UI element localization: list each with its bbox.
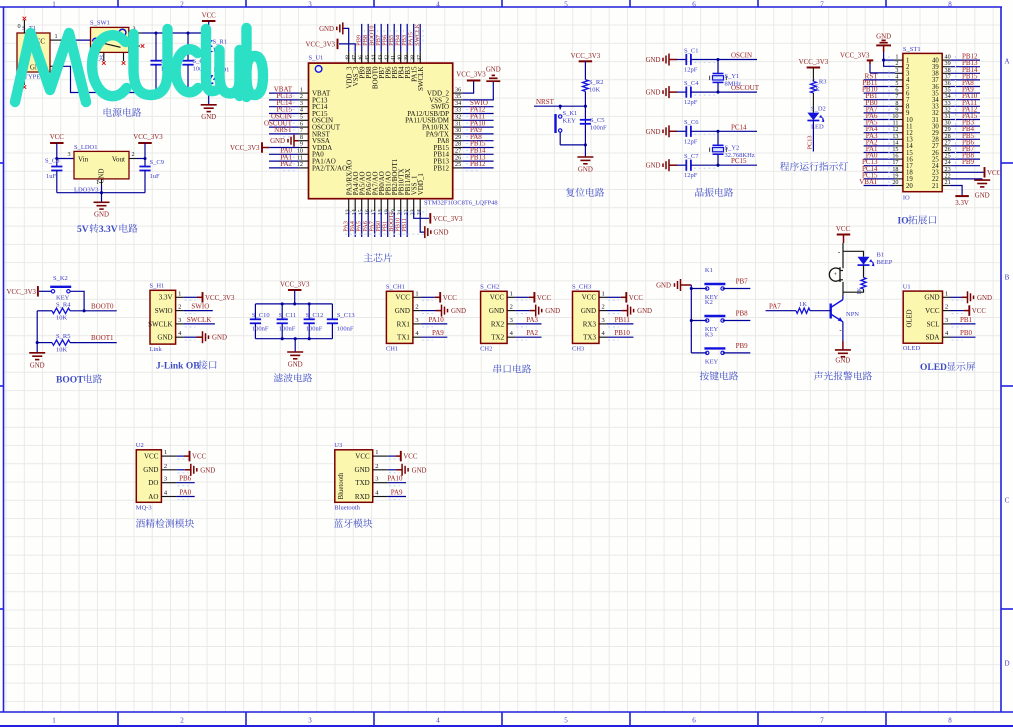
ST1 right pin 30	[942, 125, 950, 127]
svg-text:KEY: KEY	[563, 118, 577, 125]
svg-text:S_R4: S_R4	[56, 301, 71, 308]
svg-text:NRST: NRST	[274, 126, 293, 134]
U1 top pin 42 PB6	[387, 52, 389, 63]
ST1 left pin 5	[895, 86, 903, 88]
caption 主芯片	[364, 253, 373, 262]
svg-text:25: 25	[455, 161, 461, 168]
net label SWIO	[184, 310, 213, 312]
wire switch to VCC rail	[142, 32, 209, 34]
U1 top pin 47 VSS_3	[354, 52, 356, 63]
svg-text:GND: GND	[835, 358, 850, 365]
svg-text:GND: GND	[975, 193, 990, 200]
svg-text:S_C4: S_C4	[684, 80, 699, 87]
svg-text:10K: 10K	[589, 87, 601, 94]
resistor S_R1	[206, 40, 212, 56]
ST1 pin22 GND	[950, 178, 982, 180]
svg-text:1K: 1K	[857, 287, 863, 295]
svg-text:VCC: VCC	[50, 134, 65, 141]
wire NRST	[534, 105, 585, 107]
U1 bottom pin 16 PA6/AO	[367, 199, 369, 212]
svg-text:VCC_3V3: VCC_3V3	[799, 59, 829, 66]
U1 top pin 46 PB9	[361, 52, 363, 63]
svg-text:PA3: PA3	[526, 316, 538, 324]
switch value 开关	[91, 55, 97, 61]
S_CH1 pin 1 VCC	[413, 296, 421, 298]
svg-text:S_C7: S_C7	[684, 153, 699, 160]
svg-text:SWIO: SWIO	[191, 303, 209, 311]
button K1 KEY	[691, 288, 707, 290]
svg-text:U1: U1	[903, 284, 911, 291]
svg-text:PA2: PA2	[280, 160, 292, 168]
ST1 left pin 11	[895, 125, 903, 127]
U1 top pin 44 BOOT0	[374, 52, 376, 63]
S_CH2 pin 2 GND	[507, 310, 515, 312]
svg-text:PA0: PA0	[179, 489, 191, 497]
wire LED1 to ground bus	[208, 83, 210, 92]
ground bus junctions	[154, 91, 157, 94]
capacitor S_C4 12pF	[677, 91, 686, 93]
svg-text:S_C9: S_C9	[150, 159, 164, 166]
svg-text:100nF: 100nF	[590, 125, 607, 132]
MCUclub watermark logo	[15, 28, 263, 102]
ST1 left pin 12	[895, 132, 903, 134]
U1 left pin 2 PC13	[299, 99, 309, 101]
ST1 right pin 39	[942, 66, 950, 68]
svg-text:8MHz: 8MHz	[725, 80, 742, 87]
U2 pin 3 DO	[161, 482, 176, 484]
svg-text:PB0: PB0	[960, 329, 973, 337]
svg-text:12pF: 12pF	[684, 99, 698, 106]
U1 right pin 25 PB12	[453, 167, 463, 169]
svg-text:VDD_1: VDD_1	[417, 173, 425, 196]
U1 right pin 36 VDD_2	[453, 92, 463, 94]
buzzer B1	[829, 268, 840, 281]
svg-text:RX1: RX1	[397, 320, 411, 328]
svg-text:Vin: Vin	[78, 155, 89, 163]
resistor S_R4 10K	[37, 310, 52, 312]
svg-text:D: D	[1004, 660, 1009, 668]
svg-text:J-Link OB: J-Link OB	[156, 362, 200, 372]
svg-text:S_K1: S_K1	[563, 110, 578, 117]
svg-text:VCC_3V3: VCC_3V3	[205, 295, 235, 302]
T1 shell pin top	[23, 20, 25, 33]
svg-text:GND: GND	[646, 129, 661, 136]
capacitor S_C10 100nF	[254, 304, 256, 319]
svg-text:S_R2: S_R2	[589, 79, 603, 86]
S_H1 pin 2 SWIO	[176, 310, 184, 312]
svg-text:5: 5	[564, 717, 568, 725]
power port VCC	[388, 455, 396, 457]
U1 pin47 VSS_3 to VCC_3V3	[339, 44, 355, 52]
S_CH2 pin 3 RX2	[507, 323, 515, 325]
S_CH3 pin 4 TX3	[599, 336, 607, 338]
svg-text:GND: GND	[201, 114, 216, 121]
svg-text:S_R5: S_R5	[56, 333, 70, 340]
svg-text:NRST: NRST	[536, 98, 555, 106]
U1 bottom pin 20 PB2/BOOT1	[393, 199, 395, 212]
svg-text:B1: B1	[877, 251, 885, 258]
svg-text:2: 2	[180, 717, 184, 725]
U1 left pin 3 PC14	[299, 106, 309, 108]
U3 pin 2 GND	[373, 469, 388, 471]
ST1 pin3 wire	[870, 72, 895, 74]
ST1 right pin 25	[942, 158, 950, 160]
ST1 pin21 3.3V	[950, 186, 962, 197]
U1 left pin 1 VBAT	[299, 92, 309, 94]
capacitor S_C11 100nF	[281, 304, 283, 319]
button K2 KEY	[691, 320, 707, 322]
U3 pin 4 RXD	[373, 496, 388, 498]
LDO GND pin 1	[101, 179, 103, 185]
svg-text:U2: U2	[136, 442, 144, 449]
U1 left pin 7 NRST	[299, 133, 309, 135]
svg-text:VCC: VCC	[629, 295, 644, 302]
svg-text:1: 1	[415, 290, 418, 297]
ST1 left pin 15	[895, 152, 903, 154]
net label PB0	[951, 336, 976, 338]
module S_H1 body	[150, 290, 176, 344]
svg-text:GND: GND	[646, 57, 661, 64]
svg-text:8: 8	[948, 717, 952, 725]
caption 滤波电路	[274, 373, 283, 382]
U3 pin 1 VCC	[373, 455, 388, 457]
ST1 left pin 10	[895, 119, 903, 121]
U1 left pin 5 OSCIN	[299, 119, 309, 121]
svg-text:TX1: TX1	[397, 334, 410, 342]
svg-text:U3: U3	[334, 442, 342, 449]
svg-text:VCC: VCC	[490, 294, 505, 302]
svg-text:VCC: VCC	[355, 453, 370, 461]
U1 right pin 35 VSS_2	[453, 99, 463, 101]
capacitor S_C6 12pF	[677, 130, 686, 132]
svg-text:OLED: OLED	[920, 363, 947, 373]
svg-text:0: 0	[17, 23, 20, 30]
svg-text:K1: K1	[705, 267, 713, 274]
svg-text:S_H1: S_H1	[150, 283, 165, 290]
svg-text:GND: GND	[157, 334, 172, 342]
ST1 left pin 19	[895, 178, 903, 180]
ST1 left pin 3	[895, 72, 903, 74]
svg-text:7: 7	[820, 717, 824, 725]
power port VCC	[607, 296, 621, 298]
module U2 body	[136, 450, 161, 503]
module U3 body	[335, 450, 373, 503]
net label PB6	[176, 482, 194, 484]
svg-text:47: 47	[352, 55, 358, 61]
button K3 KEY	[691, 352, 707, 354]
svg-text:GND: GND	[977, 295, 992, 302]
net label PA9	[388, 496, 406, 498]
svg-text:PB11: PB11	[615, 316, 631, 324]
svg-text:S_C8: S_C8	[45, 158, 59, 165]
U1 right pin 26 PB13	[453, 160, 463, 162]
S_CH2 pin 4 TX2	[507, 336, 515, 338]
svg-text:OSCIN: OSCIN	[731, 52, 752, 60]
svg-text:IO: IO	[898, 217, 909, 227]
svg-text:SDA: SDA	[925, 334, 939, 342]
alarm LED resistor	[861, 278, 866, 290]
resistor S_R3 1K	[812, 68, 814, 82]
LDO regulator S_LDO1	[74, 151, 129, 179]
ST1 right pin 21	[942, 185, 950, 187]
net label PA10	[388, 482, 406, 484]
crystal S_Y2 32.768KHz	[716, 130, 719, 133]
svg-text:GND: GND	[288, 362, 303, 369]
module S_CH1 body	[386, 291, 413, 343]
module S_CH3 body	[573, 291, 600, 343]
svg-text:10K: 10K	[56, 346, 68, 353]
SW1 pin 3	[129, 32, 142, 34]
ST1 right pin 37	[942, 79, 950, 81]
svg-text:1: 1	[375, 449, 378, 456]
module S_CH2 body	[481, 291, 508, 343]
svg-text:S_LDO1: S_LDO1	[74, 144, 97, 151]
U1 pin23 VSS_1 to VCC_3V3	[414, 211, 429, 218]
svg-text:GND: GND	[319, 26, 334, 33]
svg-text:VCC: VCC	[395, 294, 410, 302]
capacitor S_C7 12pF	[677, 164, 686, 166]
wire to net label OSCOUT	[691, 91, 757, 93]
caption 酒精检测模块	[136, 519, 145, 528]
power port VCC	[421, 296, 435, 298]
svg-text:GND: GND	[876, 34, 891, 41]
svg-text:1: 1	[602, 290, 605, 297]
S_CH1 pin 3 RX1	[413, 323, 421, 325]
U1 pin24 VDD_1 to GND	[420, 211, 424, 232]
U1 top pin 45 PB8	[367, 52, 369, 63]
svg-text:100nF: 100nF	[279, 325, 296, 332]
svg-text:VCC_3V3: VCC_3V3	[840, 53, 870, 60]
U1 left pin 8 VSSA	[299, 140, 309, 142]
svg-text:2: 2	[415, 304, 418, 311]
S_CH3 pin 1 VCC	[599, 296, 607, 298]
svg-text:3: 3	[510, 317, 513, 324]
svg-text:2: 2	[375, 463, 378, 470]
capacitor S_C13 100nF	[331, 304, 333, 319]
svg-text:12pF: 12pF	[684, 172, 698, 179]
svg-text:S_C6: S_C6	[684, 119, 699, 126]
svg-text:S_K2: S_K2	[53, 275, 68, 282]
svg-text:K2: K2	[705, 299, 713, 306]
svg-text:RX2: RX2	[491, 320, 505, 328]
U1 bottom pin 14 PA4/AO	[354, 199, 356, 212]
resistor S_R5 10K	[37, 342, 52, 344]
svg-text:21: 21	[945, 179, 951, 186]
svg-text:1uF: 1uF	[46, 173, 57, 180]
ground symbol GND power rail	[208, 93, 210, 105]
ST1 left pin 1	[895, 59, 903, 61]
svg-text:MQ-3: MQ-3	[136, 504, 152, 511]
ground symbol GND (filter)	[294, 339, 296, 352]
ST1 left pin 13	[895, 138, 903, 140]
svg-text:GND: GND	[451, 308, 466, 315]
S_H1 pin 1 3.3V	[176, 296, 184, 298]
svg-text:IO: IO	[903, 195, 910, 202]
svg-text:C: C	[1005, 497, 1010, 505]
ST1 right pin 23	[942, 171, 950, 173]
U1 bottom pin 21 PB10/TX	[400, 199, 402, 212]
power port VCC	[951, 310, 964, 312]
SW1 pin 2 (unconnected)	[129, 45, 140, 47]
svg-text:DO: DO	[148, 479, 158, 487]
svg-text:12pF: 12pF	[684, 138, 698, 145]
net label PA3	[515, 323, 541, 325]
svg-text:GND: GND	[924, 294, 939, 302]
svg-text:S_Y2: S_Y2	[725, 145, 740, 152]
svg-text:39: 39	[404, 55, 410, 61]
svg-text:43: 43	[378, 55, 384, 61]
svg-text:GND: GND	[489, 307, 504, 315]
S_CH2 pin 1 VCC	[507, 296, 515, 298]
wire to net label PC15	[691, 164, 757, 166]
svg-text:VCC: VCC	[972, 308, 987, 315]
wire R3 to LED D2	[812, 93, 814, 113]
svg-text:S_C13: S_C13	[337, 312, 355, 319]
U1 left pin 12 PA2/TX/AO	[299, 167, 309, 169]
svg-text:1: 1	[164, 449, 167, 456]
svg-text:VCC: VCC	[537, 295, 552, 302]
ST1 left pin 18	[895, 171, 903, 173]
svg-text:STM32F103C8T6_LQFP48: STM32F103C8T6_LQFP48	[424, 200, 498, 207]
svg-text:SWCLK: SWCLK	[417, 67, 425, 92]
capacitor S_C5 100nF	[580, 119, 591, 121]
ST1 left pin 16	[895, 158, 903, 160]
module U1 body	[903, 291, 942, 343]
svg-text:KEY: KEY	[705, 358, 719, 365]
svg-text:GND: GND	[30, 363, 45, 370]
svg-text:1: 1	[178, 290, 181, 297]
net label PB11	[607, 323, 633, 325]
T1 pin 1	[50, 39, 63, 41]
svg-text:GND: GND	[395, 307, 410, 315]
svg-text:2: 2	[164, 463, 167, 470]
svg-text:VCC: VCC	[582, 294, 597, 302]
svg-text:VCC_3V3: VCC_3V3	[7, 289, 37, 296]
U1 bottom pin 13 PA3/RX/AO	[348, 199, 350, 212]
connector T1 (TYPE-C-2P)	[17, 33, 50, 72]
svg-text:3: 3	[67, 151, 70, 158]
power port GND	[388, 469, 396, 471]
S_CH1 pin 4 TX1	[413, 336, 421, 338]
power port VCC	[515, 296, 529, 298]
wire K2 to BOOT0 row	[70, 291, 84, 311]
svg-text:BOOT0: BOOT0	[91, 302, 114, 310]
svg-text:AO: AO	[148, 493, 158, 501]
svg-text:3: 3	[178, 317, 181, 324]
svg-text:44: 44	[372, 55, 378, 61]
wire LDO Vout to VCC_3V3	[137, 158, 145, 160]
svg-text:VCC: VCC	[192, 454, 207, 461]
svg-text:2: 2	[602, 304, 605, 311]
SW1 bottom pins (unconnected)	[103, 52, 105, 61]
svg-text:PB10: PB10	[614, 329, 630, 337]
ST1 left pin 17	[895, 165, 903, 167]
svg-text:S_ST1: S_ST1	[903, 46, 921, 53]
svg-text:GND: GND	[412, 467, 427, 474]
S_CH3 pin 3 RX3	[599, 323, 607, 325]
svg-text:3.3V: 3.3V	[99, 225, 118, 235]
svg-text:Bluetooth: Bluetooth	[338, 472, 345, 499]
ST1 left pin 7	[895, 99, 903, 101]
caption 声光报警电路	[814, 371, 823, 380]
caption 按键电路	[700, 371, 709, 380]
svg-text:VCC_3V3: VCC_3V3	[433, 216, 463, 223]
svg-text:3: 3	[415, 317, 418, 324]
U1 right pin 33 PA12/USB/DP	[453, 113, 463, 115]
svg-text:S_CH1: S_CH1	[386, 284, 405, 291]
svg-text:1: 1	[510, 290, 513, 297]
net label PA0	[176, 496, 194, 498]
svg-text:GND: GND	[355, 466, 370, 474]
net label PA10	[421, 323, 447, 325]
caption 晶振电路	[695, 188, 703, 197]
U1 pin 2 VCC	[943, 310, 951, 312]
svg-text:CH3: CH3	[572, 345, 584, 352]
svg-text:CH1: CH1	[386, 345, 398, 352]
U1 left pin 9 VDDA	[299, 147, 309, 149]
svg-text:OLED: OLED	[903, 345, 921, 352]
svg-text:GND: GND	[212, 335, 227, 342]
svg-text:2: 2	[945, 304, 948, 311]
U1 pin 1 GND	[943, 296, 951, 298]
svg-text:PB1: PB1	[960, 316, 973, 324]
ST1 right pin 32	[942, 112, 950, 114]
svg-text:37: 37	[417, 55, 423, 61]
svg-text:CH2: CH2	[480, 345, 492, 352]
svg-text:GND: GND	[434, 230, 449, 237]
svg-text:PB11: PB11	[401, 218, 408, 232]
power port GND	[176, 469, 184, 471]
U1 left pin 4 PC15	[299, 113, 309, 115]
svg-text:VCC: VCC	[144, 453, 159, 461]
net label PB10	[607, 336, 633, 338]
svg-text:GND: GND	[581, 307, 596, 315]
svg-text:3.3V: 3.3V	[159, 294, 173, 302]
svg-text:3: 3	[602, 317, 605, 324]
U1 top pin 37 SWCLK	[419, 52, 421, 63]
svg-text:PB8: PB8	[736, 310, 749, 318]
svg-text:RXD: RXD	[355, 493, 370, 501]
svg-text:TX3: TX3	[583, 334, 596, 342]
svg-text:41: 41	[391, 55, 397, 61]
svg-text:VCC: VCC	[987, 170, 1002, 177]
ST1 right pin 40	[942, 59, 950, 61]
svg-text:S_SW1: S_SW1	[90, 20, 110, 27]
U1 VSSA pin8 sideways ground	[295, 140, 299, 142]
ST1 right pin 26	[942, 152, 950, 154]
T1 pin 2	[50, 65, 63, 67]
svg-text:1: 1	[945, 290, 948, 297]
svg-text:PC14: PC14	[731, 123, 747, 131]
svg-text:GND: GND	[94, 212, 109, 219]
svg-text:S_Y1: S_Y1	[725, 73, 740, 80]
alarm component frame wires	[843, 243, 864, 295]
LDO pin 2	[129, 158, 137, 160]
ST1 right pin 29	[942, 132, 950, 134]
svg-text:B: B	[1005, 274, 1010, 282]
svg-text:S_CH2: S_CH2	[480, 284, 499, 291]
U1 right pin 27 PB14	[453, 153, 463, 155]
caption 复位电路	[566, 188, 575, 197]
S_H1 pin 4 GND	[176, 336, 184, 338]
LED S_D2	[807, 113, 819, 121]
svg-text:VCC: VCC	[836, 226, 851, 233]
svg-text:GND: GND	[545, 308, 560, 315]
svg-text:GND: GND	[637, 308, 652, 315]
crystal S_Y1 8MHz	[716, 58, 719, 61]
svg-text:BOOT1: BOOT1	[91, 334, 114, 342]
button S_K2	[51, 290, 54, 293]
